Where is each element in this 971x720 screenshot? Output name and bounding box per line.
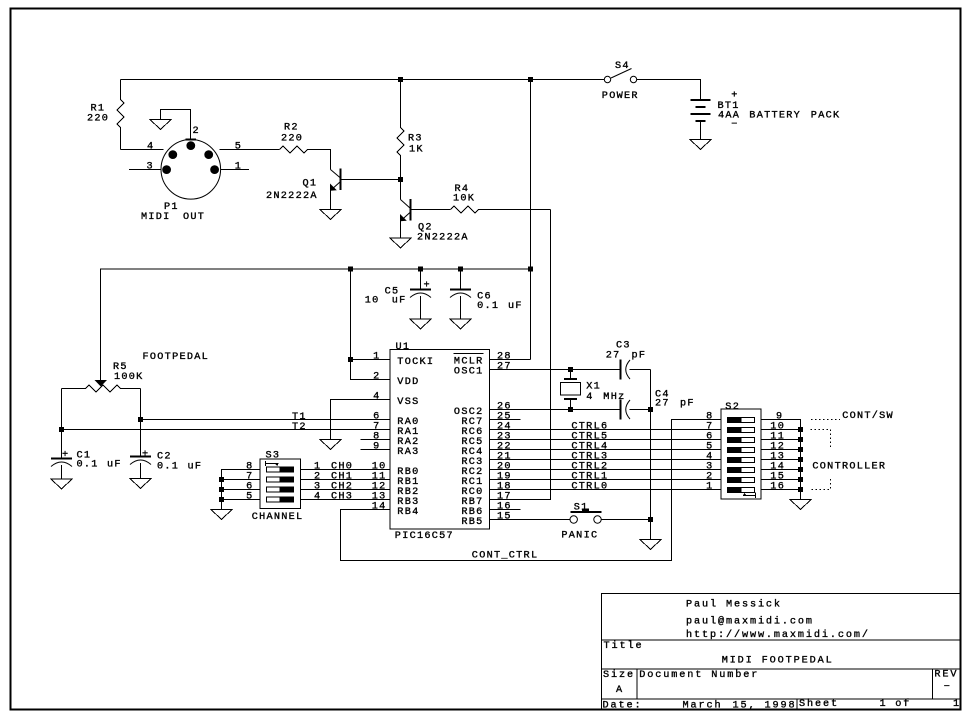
svg-text:S2: S2 — [725, 402, 740, 413]
svg-text:16: 16 — [770, 482, 785, 493]
dotted lead CONT/SW — [811, 419, 840, 421]
wire S4 to battery — [637, 80, 701, 100]
R5 wiper arrow — [95, 380, 108, 387]
junction at MCLR drop — [528, 77, 533, 82]
svg-text:Paul Messick: Paul Messick — [686, 598, 782, 610]
svg-text:220: 220 — [87, 114, 109, 125]
pin 25 RC7 stub — [490, 419, 521, 421]
pin 22 RC4 / CTRL4 — [490, 449, 722, 451]
DIP switch S3 CHANNEL — [260, 459, 301, 509]
svg-text:U1: U1 — [396, 342, 411, 353]
capacitor C6 — [460, 269, 462, 289]
svg-text:Title: Title — [604, 640, 644, 652]
wire T1 net — [141, 419, 391, 421]
junction T1 — [138, 417, 143, 422]
resistor R2 — [280, 146, 310, 153]
svg-text:−: − — [944, 682, 952, 693]
svg-text:1: 1 — [880, 699, 888, 710]
dotted bracket CONTROLLER — [811, 430, 831, 450]
svg-text:MHz: MHz — [603, 392, 625, 403]
connector P1 MIDI OUT — [161, 140, 221, 200]
svg-text:PACK: PACK — [811, 111, 841, 122]
pin 18 RC0 / CTRL0 — [490, 489, 722, 491]
wire RB7 to R4 vertical — [490, 210, 551, 500]
pin 8 RA2 stub — [361, 439, 391, 441]
svg-text:CONT/SW: CONT/SW — [842, 410, 894, 422]
pin 5 lead — [220, 149, 280, 151]
svg-text:R2: R2 — [284, 123, 299, 134]
wire R1 to P1 pin 4 — [121, 149, 164, 151]
svg-text:2: 2 — [193, 126, 200, 137]
svg-text:27: 27 — [606, 351, 621, 362]
S3 right pins 1-4 to RB0-RB3 — [301, 469, 391, 471]
wire R4 to RB7 drop — [479, 209, 551, 211]
svg-text:POWER: POWER — [602, 91, 639, 102]
svg-text:−: − — [731, 120, 738, 131]
ground below S3 — [211, 510, 232, 520]
wire R2 to Q1 collector — [309, 150, 331, 170]
svg-text:uF: uF — [508, 301, 523, 312]
crystal X1 — [570, 370, 572, 379]
junction S1 node — [648, 517, 653, 522]
svg-text:PIC16C57: PIC16C57 — [395, 531, 454, 542]
svg-text:27: 27 — [497, 362, 512, 373]
svg-text:X1: X1 — [586, 382, 601, 393]
pushbutton S1 PANIC — [570, 516, 601, 523]
svg-text:pF: pF — [680, 399, 695, 410]
svg-text:4: 4 — [147, 142, 154, 153]
svg-text:27: 27 — [655, 399, 670, 410]
wire pin 14 to CONT_CTRL — [341, 420, 722, 561]
ground at Q2 emitter — [390, 238, 411, 248]
junctions on S2 ground drop — [798, 427, 803, 432]
svg-text:S3: S3 — [266, 451, 281, 462]
svg-text:+: + — [62, 450, 69, 461]
pin 23 RC5 / CTRL5 — [490, 439, 722, 441]
wire oscillator ground drop — [650, 370, 652, 540]
ground at VSS — [320, 440, 341, 450]
ground below battery — [690, 140, 711, 150]
svg-text:CONTROLLER: CONTROLLER — [812, 461, 886, 472]
svg-text:14: 14 — [372, 502, 387, 513]
svg-text:Date:: Date: — [603, 701, 643, 712]
svg-text:paul@maxmidi.com: paul@maxmidi.com — [686, 616, 814, 628]
DIP switch S2 — [721, 409, 761, 499]
transistor Q1 2N2222A — [340, 169, 342, 191]
IC U1 PIC16C57 — [390, 350, 490, 530]
svg-text:REV: REV — [934, 670, 958, 681]
wire pin 4 VSS to ground — [331, 400, 391, 440]
ground below S2 — [790, 500, 811, 510]
junction pin1 — [348, 357, 353, 362]
svg-text:of: of — [895, 698, 911, 710]
svg-text:4: 4 — [314, 492, 321, 503]
wire VDD drop to pin1/pin2 — [351, 269, 391, 380]
capacitor C2 — [130, 456, 151, 458]
svg-text:1: 1 — [706, 482, 713, 493]
svg-text:10K: 10K — [453, 194, 475, 205]
svg-text:CONT_CTRL: CONT_CTRL — [472, 551, 539, 562]
svg-text:VDD: VDD — [397, 377, 419, 388]
S3 left pins 8-5 — [222, 470, 261, 510]
svg-text:pF: pF — [632, 351, 647, 362]
svg-text:0.1: 0.1 — [77, 460, 99, 471]
svg-text:BATTERY: BATTERY — [749, 111, 801, 122]
svg-text:+: + — [731, 91, 738, 102]
pin 19 RC1 / CTRL1 — [490, 479, 722, 481]
resistor R1 — [117, 80, 124, 150]
junction at VDD drop — [348, 267, 353, 272]
svg-text:100K: 100K — [114, 372, 144, 383]
resistor R4 — [412, 209, 451, 211]
svg-text:4: 4 — [373, 392, 380, 403]
battery BT1 — [691, 100, 711, 121]
svg-text:T2: T2 — [292, 422, 307, 433]
junction T2 at C1 — [59, 427, 64, 432]
svg-text:CH3: CH3 — [331, 492, 353, 503]
junction X1 bottom on OSC2 — [568, 407, 573, 412]
svg-text:Sheet: Sheet — [799, 698, 839, 710]
svg-text:OUT: OUT — [183, 212, 205, 223]
svg-text:1: 1 — [235, 162, 242, 173]
wire V+ top rail — [121, 79, 605, 81]
ground at Q1 emitter — [320, 210, 341, 220]
ground below C1 — [51, 479, 72, 489]
wire S1 to ground drop — [601, 519, 650, 521]
pin 3 lead — [129, 169, 161, 171]
svg-text:http://www.maxmidi.com/: http://www.maxmidi.com/ — [686, 629, 870, 641]
ground below C6 — [450, 319, 471, 329]
svg-text:Q1: Q1 — [303, 179, 318, 190]
ground below C5 — [410, 319, 431, 329]
svg-text:9: 9 — [373, 442, 380, 453]
svg-text:S4: S4 — [615, 61, 630, 72]
wire pin 1 TOCKI — [351, 359, 391, 361]
svg-text:uF: uF — [188, 462, 203, 473]
R5 body — [62, 385, 141, 392]
wire MCLR pull-up drop — [530, 80, 532, 360]
pin 28 MCLR — [490, 359, 531, 361]
wire V+ rail to footpedal — [101, 269, 531, 381]
ground below C2 — [130, 479, 151, 489]
pin 20 RC2 / CTRL2 — [490, 469, 722, 471]
ground below S1 — [640, 540, 661, 550]
pin 2 lead and label — [186, 139, 197, 141]
svg-text:4: 4 — [586, 392, 593, 403]
svg-text:5: 5 — [235, 142, 242, 153]
svg-text:uF: uF — [107, 460, 122, 471]
svg-text:TOCKI: TOCKI — [397, 357, 434, 368]
junction C4 node — [648, 407, 653, 412]
svg-text:MIDI FOOTPEDAL: MIDI FOOTPEDAL — [722, 655, 834, 666]
svg-text:+: + — [142, 450, 149, 461]
svg-text:15, 1998: 15, 1998 — [733, 701, 797, 712]
svg-text:Document Number: Document Number — [639, 669, 759, 681]
transistor Q2 2N2222A — [400, 180, 402, 200]
wire T2 net — [62, 429, 391, 431]
switch S4 — [604, 69, 636, 83]
svg-text:RA3: RA3 — [397, 447, 419, 458]
junction Q1 base / R3 / Q2 collector — [398, 177, 403, 182]
pin 16 RB6 stub — [490, 509, 521, 511]
pin 24 RC6 / CTRL6 — [490, 429, 722, 431]
svg-text:CHANNEL: CHANNEL — [252, 512, 304, 523]
svg-text:2: 2 — [373, 372, 380, 383]
svg-text:A: A — [616, 685, 624, 696]
svg-text:S1: S1 — [574, 502, 589, 513]
wire Q1 base node — [342, 179, 401, 181]
svg-text:CTRL0: CTRL0 — [571, 482, 608, 493]
resistor R3 — [397, 80, 404, 180]
junctions on S3 ground drop — [219, 477, 224, 482]
svg-text:1K: 1K — [409, 145, 424, 156]
S2 right pins 9-16 — [761, 420, 801, 500]
ground at P1 pin 2 — [150, 120, 171, 130]
svg-text:MIDI: MIDI — [141, 212, 171, 223]
pin 1 lead — [221, 169, 249, 171]
svg-text:1: 1 — [373, 352, 380, 363]
pin 9 RA3 stub — [361, 449, 391, 451]
pin 15 RB5 to S1 — [490, 519, 571, 521]
svg-text:0.1: 0.1 — [477, 301, 499, 312]
svg-text:VSS: VSS — [397, 397, 419, 408]
svg-text:RB5: RB5 — [461, 517, 483, 528]
svg-text:1: 1 — [953, 699, 961, 710]
pin 21 RC3 / CTRL3 — [490, 459, 722, 461]
capacitor C4 — [620, 400, 622, 420]
svg-text:PANIC: PANIC — [561, 530, 598, 541]
svg-text:OSC1: OSC1 — [454, 367, 484, 378]
svg-text:5: 5 — [246, 492, 253, 503]
svg-text:3: 3 — [147, 162, 154, 173]
svg-text:uF: uF — [392, 296, 407, 307]
svg-text:0.1: 0.1 — [157, 462, 179, 473]
svg-text:FOOTPEDAL: FOOTPEDAL — [143, 352, 210, 363]
capacitor C5 — [420, 269, 422, 289]
svg-text:15: 15 — [497, 512, 512, 523]
junction X1 top on OSC1 — [568, 367, 573, 372]
title block outer — [602, 594, 961, 710]
svg-text:RB4: RB4 — [397, 507, 419, 518]
junction at V+ rail — [528, 267, 533, 272]
wire R5 right to T1/C2 — [140, 389, 142, 458]
wire R5 left to T2/C1 — [61, 389, 63, 459]
svg-text:220: 220 — [281, 134, 303, 145]
svg-text:R3: R3 — [408, 134, 423, 145]
svg-text:2N2222A: 2N2222A — [417, 233, 469, 244]
junction at C6 — [458, 267, 463, 272]
capacitor C1 — [51, 458, 72, 460]
svg-text:+: + — [424, 281, 431, 292]
svg-text:Size: Size — [603, 669, 635, 681]
svg-text:2N2222A: 2N2222A — [266, 191, 318, 202]
junction at R3 top — [398, 77, 403, 82]
svg-text:March: March — [683, 700, 723, 712]
svg-text:10: 10 — [365, 296, 380, 307]
capacitor C3 — [620, 360, 622, 380]
junction at C5 — [418, 267, 423, 272]
